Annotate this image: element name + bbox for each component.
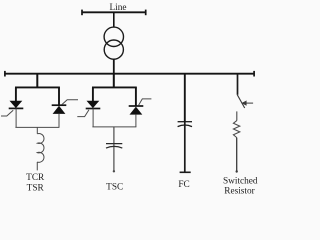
- gate lead of V4: [139, 99, 152, 106]
- wire: bus to TSC valve: [113, 74, 115, 88]
- gate lead of V1: [1, 110, 13, 116]
- svg-text:TSC: TSC: [106, 182, 123, 192]
- wire: valve to reactor: [36, 127, 38, 133]
- wire: bus to capacitor C2: [184, 74, 186, 122]
- bus: MV busbar with end ticks: [4, 71, 254, 77]
- label TSC: [106, 182, 123, 192]
- thyristor V4 (TSC right, conducting up): [129, 87, 144, 127]
- wire: switch to resistor: [236, 111, 238, 120]
- node Line (label): [109, 3, 126, 13]
- capacitor C2 (FC filter): [178, 122, 192, 127]
- gate lead of V2: [62, 100, 78, 105]
- svg-text:Resistor: Resistor: [224, 187, 255, 196]
- label TCR: [26, 173, 45, 183]
- inductor L1 (TCR reactor): [37, 134, 44, 171]
- svg-text:TCR: TCR: [26, 173, 45, 183]
- resistor R1: [233, 121, 239, 138]
- wire: bus to switch: [237, 74, 239, 95]
- wire: resistor lower lead: [236, 138, 238, 173]
- capacitor C1 (TSC): [106, 144, 122, 149]
- svg-text:FC: FC: [178, 180, 189, 190]
- wire: transformer to bus: [113, 59, 115, 74]
- wire: valve to capacitor C1: [113, 127, 115, 173]
- svg-text:Switched: Switched: [223, 177, 258, 187]
- thyristor V1 (TCR left, conducting down): [9, 87, 24, 127]
- wire: HV line bar with end ticks: [82, 10, 146, 16]
- wire: C2 lower lead with end bar: [180, 122, 191, 173]
- transformer T1: [104, 27, 123, 59]
- label Switched: [223, 177, 258, 187]
- switch S1 blade: [237, 95, 244, 108]
- svg-text:TSR: TSR: [27, 183, 45, 193]
- wire: TSC valve bottom rail: [92, 126, 136, 128]
- thyristor V3 (TSC left, conducting down): [86, 87, 101, 127]
- thyristor V2 (TCR right, conducting up): [52, 87, 67, 127]
- label TSR: [27, 183, 45, 193]
- switch S1 control arrow: [242, 101, 253, 105]
- wire: TCR valve top rail: [15, 86, 60, 88]
- gate lead of V3: [77, 110, 89, 117]
- wire: TSC valve top rail: [92, 86, 137, 88]
- label FC: [178, 180, 189, 190]
- wire: line bar to transformer: [113, 12, 115, 27]
- label Resistor: [224, 187, 255, 197]
- wire: TCR valve bottom rail: [15, 126, 59, 128]
- wire: bus to TCR valve: [36, 74, 38, 88]
